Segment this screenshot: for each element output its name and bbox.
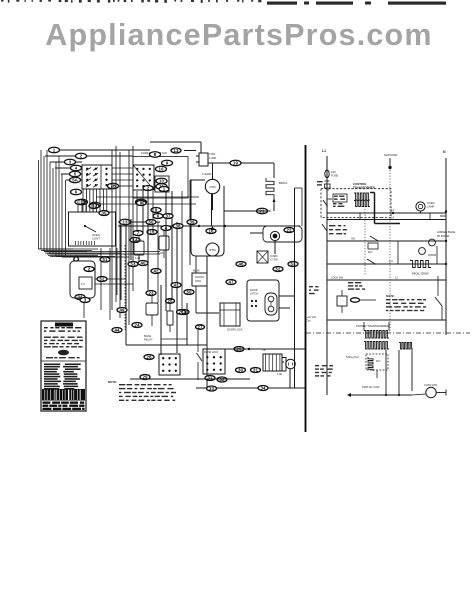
svg-text:1-90: 1-90	[277, 373, 283, 376]
switch door X	[257, 251, 278, 263]
node C1	[75, 200, 85, 205]
node W29	[140, 375, 150, 380]
fuse F1	[325, 170, 339, 188]
node Y1164	[159, 187, 169, 192]
ground symbol	[384, 153, 398, 169]
svg-text:53: 53	[131, 262, 136, 267]
wire top runs	[45, 150, 150, 180]
svg-text:34: 34	[261, 386, 266, 391]
svg-text:19: 19	[233, 161, 238, 166]
svg-text:47: 47	[229, 280, 234, 285]
wire E1 leads	[273, 198, 276, 205]
node Y8156	[151, 208, 161, 213]
svg-text:FUSE: FUSE	[331, 174, 338, 178]
text block lv	[315, 365, 333, 377]
note text right	[386, 294, 426, 311]
wire left drop	[95, 279, 133, 284]
label SW2	[141, 151, 167, 155]
node W32	[207, 386, 217, 391]
wire row y225	[327, 208, 446, 220]
switch S3	[367, 259, 393, 265]
svg-text:22: 22	[287, 228, 292, 233]
svg-text:44: 44	[115, 328, 120, 333]
node LL51	[100, 257, 110, 262]
node W7b	[108, 183, 119, 189]
wire main down	[196, 286, 219, 313]
wire W21 left	[224, 205, 274, 211]
wire control stub	[327, 190, 332, 199]
wire row y246	[327, 237, 446, 242]
node W24	[132, 323, 142, 328]
wire stubs rows	[360, 213, 437, 264]
svg-text:50: 50	[187, 290, 192, 295]
wire y349 run	[225, 348, 306, 350]
wire y197 run	[96, 196, 199, 198]
svg-text:50 2600W: 50 2600W	[437, 234, 450, 238]
clock ERC	[69, 200, 116, 246]
site watermark header	[1, 0, 446, 5]
terminal block TB	[262, 348, 282, 371]
oven light assembly	[263, 226, 302, 242]
wire row y276	[327, 276, 446, 281]
svg-text:5-Ring Pwr: 5-Ring Pwr	[346, 355, 359, 359]
node Z49	[117, 308, 127, 313]
node Y4166	[161, 226, 171, 231]
label L1	[322, 149, 326, 153]
wire run y339	[161, 338, 187, 340]
svg-text:51: 51	[103, 257, 108, 262]
node W27	[196, 325, 205, 330]
outlet CO	[282, 358, 295, 372]
label K3	[144, 334, 153, 342]
svg-text:49: 49	[120, 308, 125, 313]
svg-text:38: 38	[176, 224, 181, 229]
wire secondary drops	[377, 350, 412, 395]
node Y2148	[143, 186, 153, 191]
wire outlet	[277, 362, 290, 388]
wire TOD east	[208, 163, 274, 178]
node X46	[236, 262, 246, 267]
node W30b	[234, 347, 244, 352]
relay MAIN	[192, 269, 207, 287]
svg-text:40: 40	[141, 261, 146, 266]
svg-text:39: 39	[190, 220, 195, 225]
switch block SW3	[159, 354, 180, 375]
node B2b	[80, 298, 90, 303]
node Z50	[146, 220, 156, 225]
node W5	[70, 171, 81, 177]
wire dotted v2	[389, 170, 391, 333]
bus N	[440, 158, 447, 335]
switch S4	[435, 276, 442, 320]
node W10	[156, 166, 167, 172]
svg-text:BAKE: BAKE	[144, 334, 151, 338]
wire run y345	[126, 344, 207, 346]
motor BTM	[206, 226, 219, 256]
node W23	[146, 291, 156, 296]
node W9	[162, 160, 173, 166]
wire y226 run	[118, 225, 300, 227]
switch aux box	[155, 176, 169, 192]
svg-text:26: 26	[179, 310, 184, 315]
relay K1	[134, 234, 144, 262]
node X38	[173, 224, 183, 229]
relay K2	[159, 229, 169, 258]
element broil	[410, 261, 431, 276]
meat probe	[337, 282, 376, 313]
node W6b	[77, 199, 88, 205]
svg-text:1-9: 1-9	[389, 259, 393, 263]
switch S1	[322, 224, 347, 234]
node X39	[187, 220, 197, 225]
label N	[443, 150, 446, 154]
oven lamp	[416, 201, 435, 213]
node X40	[138, 261, 148, 266]
svg-text:POWER TRANSFORMER: POWER TRANSFORMER	[356, 324, 389, 328]
svg-text:50: 50	[149, 220, 154, 225]
svg-text:OVEN: OVEN	[270, 254, 277, 258]
svg-text:30: 30	[238, 368, 243, 373]
svg-text:LT SW: LT SW	[270, 258, 278, 262]
wire run y389	[196, 387, 306, 389]
node W14	[130, 238, 140, 243]
barcode	[42, 389, 85, 410]
wire aux	[83, 298, 85, 318]
node W10c	[156, 184, 167, 190]
wire dashdot frame	[306, 150, 470, 333]
svg-text:52: 52	[276, 267, 281, 272]
resistor R1	[167, 303, 173, 332]
svg-text:HIDDEN BAKE: HIDDEN BAKE	[437, 230, 455, 234]
svg-text:OVEN: OVEN	[427, 201, 435, 205]
svg-text:10: 10	[159, 179, 164, 184]
wire long verticals	[143, 190, 207, 388]
divider line	[305, 145, 307, 432]
svg-text:10: 10	[159, 167, 164, 172]
svg-text:LOCK SW: LOCK SW	[331, 276, 344, 280]
node W33	[258, 386, 268, 391]
node W26	[177, 310, 186, 315]
node Y9141	[136, 201, 146, 206]
wire row y215	[327, 212, 446, 214]
switch latch lower	[197, 330, 203, 380]
svg-text:PWR DC COM: PWR DC COM	[362, 385, 379, 389]
wire row y320	[327, 319, 446, 321]
svg-text:5A: 5A	[72, 178, 78, 183]
node B2a	[84, 267, 94, 272]
svg-text:TRANSFORMER: TRANSFORMER	[353, 186, 375, 190]
node W51	[179, 310, 189, 315]
node C2	[89, 204, 99, 209]
wire top right runs	[295, 188, 303, 226]
label OTM	[202, 172, 212, 176]
svg-text:46: 46	[239, 262, 244, 267]
svg-text:7B: 7B	[110, 184, 116, 189]
relay K3	[146, 296, 158, 326]
node W21	[257, 208, 268, 214]
motor OTM	[205, 179, 219, 193]
label 5ring	[346, 355, 359, 359]
wire mid tangle	[101, 191, 182, 320]
element hidden bake	[419, 230, 456, 257]
node W10b	[156, 178, 167, 184]
latch assembly	[247, 280, 279, 321]
svg-text:15: 15	[150, 230, 155, 235]
svg-text:AppliancePartsPros.com: AppliancePartsPros.com	[45, 18, 432, 52]
wire control L	[370, 193, 400, 224]
node W31	[251, 368, 261, 373]
svg-text:1-9: 1-9	[81, 283, 85, 286]
node X47	[226, 280, 236, 285]
wire loop extensions	[39, 249, 161, 257]
svg-text:DOOR LOCK: DOOR LOCK	[204, 351, 219, 354]
svg-text:RELAY: RELAY	[144, 338, 153, 342]
svg-text:24: 24	[135, 323, 140, 328]
svg-text:GROUND: GROUND	[384, 153, 398, 157]
bus L1	[326, 156, 328, 395]
label K1	[135, 256, 141, 260]
node W2	[76, 153, 87, 159]
svg-text:RLY: RLY	[376, 360, 381, 363]
wire latch	[279, 296, 295, 308]
wire OTM frame	[190, 180, 213, 265]
node W52	[273, 267, 283, 272]
switch block SW1	[82, 165, 112, 189]
svg-text:BROIL 3000W: BROIL 3000W	[412, 272, 429, 276]
label left bus	[309, 181, 323, 294]
wire loop bottom bends	[39, 249, 130, 257]
node W16	[206, 229, 216, 234]
wire oven light	[250, 233, 275, 254]
svg-text:14: 14	[391, 216, 394, 220]
svg-text:CONT: CONT	[92, 237, 100, 241]
node W1	[49, 147, 60, 153]
svg-text:LATCH: LATCH	[250, 293, 258, 296]
element comb E1	[266, 178, 274, 198]
node W8	[150, 152, 161, 158]
wire BTM frame	[191, 180, 224, 256]
svg-text:33: 33	[209, 386, 214, 391]
node X43	[171, 283, 181, 288]
svg-text:15A: 15A	[331, 170, 336, 174]
node W3	[65, 159, 76, 165]
svg-text:23: 23	[149, 291, 154, 296]
wire run y379	[130, 378, 250, 380]
switch outer box SW2	[133, 157, 188, 199]
wire y204 run	[100, 203, 196, 205]
node Y7138	[133, 231, 143, 236]
label pdc	[362, 385, 379, 389]
svg-text:Low Volt: Low Volt	[306, 315, 316, 319]
svg-text:14: 14	[391, 208, 394, 212]
node W32c	[217, 377, 227, 382]
wire row y395	[347, 393, 412, 397]
note text block	[108, 380, 176, 401]
wire interblock rows	[112, 168, 133, 186]
svg-text:1-940: 1-940	[209, 156, 217, 160]
legend info box	[41, 321, 86, 411]
node W19	[230, 160, 241, 166]
svg-text:42: 42	[154, 269, 159, 274]
node X35	[99, 211, 109, 216]
svg-text:27: 27	[198, 325, 203, 330]
label K2b	[158, 251, 164, 255]
motor conv fan	[412, 383, 446, 398]
node Y6158	[153, 214, 163, 219]
node X42	[151, 269, 161, 274]
svg-text:25: 25	[168, 299, 173, 304]
node W7	[90, 202, 101, 208]
svg-text:53: 53	[291, 262, 296, 267]
svg-text:35: 35	[102, 211, 107, 216]
wire row y266	[327, 263, 446, 265]
coil L1b	[366, 354, 388, 371]
node W28	[144, 355, 154, 360]
svg-text:BROIL: BROIL	[279, 181, 288, 185]
node W15	[147, 230, 157, 235]
node W34	[75, 295, 85, 300]
svg-text:MAIN: MAIN	[193, 269, 200, 273]
node W5b	[70, 177, 81, 183]
transformer T1	[327, 322, 413, 349]
label E1	[279, 181, 288, 185]
svg-text:13: 13	[123, 220, 128, 225]
svg-text:ON: ON	[351, 237, 355, 241]
node LL52	[97, 277, 107, 282]
svg-text:2600W: 2600W	[428, 253, 437, 257]
node W12	[171, 148, 181, 153]
switch block SW4	[203, 349, 225, 374]
node W11	[136, 199, 147, 205]
wire to TOD	[150, 142, 201, 153]
node W6	[71, 189, 82, 195]
switch block SW2	[133, 165, 154, 190]
svg-text:NOTE:: NOTE:	[108, 380, 117, 384]
svg-text:31: 31	[253, 368, 258, 373]
switch bus1	[323, 200, 328, 207]
fuse curl	[74, 256, 79, 261]
wire mid verticals	[118, 219, 160, 345]
node W53	[288, 262, 298, 267]
svg-text:RLY: RLY	[368, 251, 373, 254]
wire bundle left nested loops	[39, 150, 66, 257]
control box B2	[70, 261, 95, 298]
svg-text:DOOR LOCK: DOOR LOCK	[227, 328, 243, 332]
svg-text:1-93: 1-93	[135, 256, 141, 260]
switch S2	[368, 236, 379, 254]
wire dotted v1	[364, 201, 366, 277]
wire interblock verticals	[112, 146, 133, 330]
node W25	[166, 299, 175, 304]
svg-text:BTM: BTM	[210, 248, 217, 252]
svg-text:LAMP: LAMP	[427, 205, 435, 209]
thermostat TOD	[196, 152, 217, 166]
svg-text:Circ: Circ	[306, 319, 311, 323]
wire main relay feed	[195, 256, 197, 273]
svg-text:1-9400: 1-9400	[202, 172, 212, 176]
svg-text:TB: TB	[262, 348, 266, 352]
svg-text:13: 13	[174, 148, 179, 153]
node W50	[184, 290, 194, 295]
svg-text:43: 43	[174, 283, 179, 288]
svg-text:31: 31	[208, 376, 213, 381]
svg-text:CONV FAN: CONV FAN	[424, 383, 437, 387]
node X37	[163, 214, 173, 219]
svg-text:28: 28	[147, 355, 152, 360]
node X44	[112, 328, 122, 333]
svg-text:L1: L1	[322, 149, 326, 153]
svg-text:32: 32	[220, 377, 225, 382]
node LL53	[128, 262, 138, 267]
svg-text:52: 52	[100, 277, 105, 282]
control board	[321, 182, 391, 218]
label lowv	[306, 315, 316, 323]
door lock motor	[220, 303, 243, 332]
svg-text:C1: C1	[77, 200, 83, 205]
node W13	[120, 219, 131, 225]
node W4	[71, 165, 82, 171]
wire OTM top	[212, 163, 214, 179]
node W30	[236, 368, 246, 373]
svg-text:OTM: OTM	[209, 185, 216, 189]
svg-text:37: 37	[166, 214, 171, 219]
wire block1 drops	[83, 189, 107, 212]
wire long right verticals	[294, 188, 296, 388]
node W32b	[205, 376, 215, 381]
svg-text:NOTE:: NOTE:	[386, 294, 395, 298]
